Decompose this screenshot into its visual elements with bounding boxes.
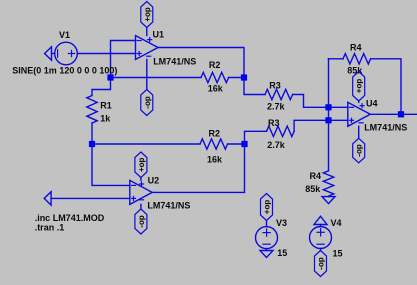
op-amp U4 [348,102,371,126]
svg-text:.tran .1: .tran .1 [35,223,65,233]
svg-text:-op: -op [355,144,364,157]
junction at R2 top right [241,74,247,80]
svg-text:V1: V1 [59,30,70,40]
resistor R3 (top, 2.7k) [265,89,348,107]
junction at U4 output [398,111,404,117]
power flag op+ above U1 [141,2,153,36]
ground flag at V1 input (rotated, pointing left) [45,47,55,60]
svg-text:+op: +op [263,200,272,215]
power flag op+ above U2 [135,152,147,180]
wire R1 bottom down to U2 inverting input [92,144,130,185]
svg-text:.inc LM741.MOD: .inc LM741.MOD [35,213,105,223]
power flag op- below U1 [141,60,153,116]
svg-text:R4: R4 [310,171,322,181]
wire U4 output [370,113,416,115]
junction at R1 bottom [89,141,95,147]
op-amp U2 [130,180,152,204]
wire junction up to R3 bottom row [245,131,267,144]
svg-text:2.7k: 2.7k [267,140,286,150]
svg-text:R2: R2 [209,128,221,138]
resistor R2 (bottom, 16k) [92,139,245,149]
svg-text:R1: R1 [100,101,112,111]
svg-text:R2: R2 [209,60,221,70]
svg-text:16k: 16k [207,154,223,164]
svg-text:+op: +op [137,157,146,172]
resistor R4 (bottom, 85k, vertical) [323,171,333,197]
resistor R2 (top, 16k) [111,72,245,82]
svg-text:V4: V4 [331,218,342,228]
svg-text:SINE(0 1m 120 0 0 0 100): SINE(0 1m 120 0 0 0 100) [12,66,117,76]
svg-text:V3: V3 [276,218,287,228]
voltage source V3 [256,227,278,249]
svg-text:+op: +op [143,7,152,22]
junction at U1 feedback node [107,74,113,80]
ground below V3 [260,249,273,258]
power flag op- below V4 [315,249,327,277]
ground flag at U2 noninverting input (rotated, pointing left) [44,192,130,205]
junction at U4 noninverting input [325,117,331,123]
junction at R2 bottom right [241,141,247,147]
power flag op- below U4 [353,126,365,163]
wire V1 to U1 noninverting input [77,53,135,55]
svg-text:16k: 16k [208,84,224,94]
wire inverting input row of U1 [92,41,136,96]
svg-text:LM741/NS: LM741/NS [153,56,196,66]
svg-text:15: 15 [277,248,287,258]
svg-text:LM741/NS: LM741/NS [147,200,190,210]
svg-text:-op: -op [143,96,152,109]
junction at U4 inverting input [325,104,331,110]
power flag op+ above U4 [353,72,365,103]
ground below R4 bottom [322,197,335,204]
svg-text:+op: +op [355,79,364,94]
svg-text:LM741/NS: LM741/NS [364,123,407,133]
ground flag above V4 (rotated, pointing up) [314,216,327,226]
resistor R4 (top, 85k) [329,54,402,115]
svg-text:1k: 1k [100,114,111,124]
svg-text:-op: -op [317,257,326,270]
power flag op+ above V3 [261,194,273,227]
wire U2 output feedback riser [152,144,244,192]
svg-text:R4: R4 [350,43,362,53]
vertical wire R4 top to R4 bottom through U4 input junctions [328,59,330,171]
voltage source V4 [310,227,332,249]
svg-text:U1: U1 [153,30,165,40]
svg-text:-op: -op [137,215,146,228]
svg-text:U2: U2 [148,175,160,185]
wire U1 output to feedback corner [158,48,265,95]
svg-text:85k: 85k [305,184,321,194]
resistor R1 1k [87,96,97,145]
svg-text:2.7k: 2.7k [267,101,286,111]
op-amp U1 [136,36,159,60]
resistor R3 (bottom, 2.7k) [267,120,348,136]
voltage source V1 [55,42,78,65]
svg-text:R3: R3 [269,80,281,90]
power flag op- below U2 [135,204,147,234]
svg-text:R3: R3 [268,118,280,128]
svg-text:15: 15 [333,249,343,259]
svg-text:U4: U4 [366,98,378,108]
